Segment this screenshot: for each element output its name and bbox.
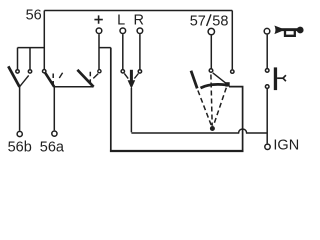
- push button stem: [277, 77, 283, 79]
- push button knob fork: [283, 75, 286, 81]
- svg-text:57: 57: [190, 13, 206, 29]
- switch S3 alternate throw tick: [93, 74, 98, 79]
- wire top bus drop to dimmer right contact: [231, 11, 233, 70]
- wire top bus from 56 corner to right corner: [44, 10, 232, 12]
- svg-text:56a: 56a: [40, 139, 65, 155]
- push button bottom contact: [265, 85, 269, 89]
- horn symbol bell: [274, 26, 281, 35]
- terminal 56a circle: [52, 131, 57, 136]
- dimmer junction blob: [225, 82, 229, 86]
- wire R down: [139, 34, 141, 69]
- svg-text:R: R: [134, 13, 144, 29]
- contact circle of switch S3: [98, 70, 101, 73]
- horn symbol mouthpiece ball: [297, 27, 304, 34]
- dimmer dashed travel left: [198, 91, 212, 127]
- contact circle right of switch S1: [28, 70, 31, 73]
- switch S1 blade (thrown up-left): [8, 66, 19, 87]
- contact circle left of switch S1: [16, 70, 19, 73]
- contact circle of switch S2: [43, 70, 46, 73]
- contact spring R: [134, 74, 138, 79]
- svg-text:L: L: [117, 13, 125, 29]
- terminal IGN circle: [265, 144, 270, 149]
- terminal 56b circle: [17, 131, 22, 136]
- switch S3 blade (thrown up-left): [77, 70, 93, 87]
- svg-text:58: 58: [212, 13, 228, 29]
- push button actuator bar: [274, 67, 277, 90]
- push button top contact: [265, 69, 269, 73]
- horn symbol tube: [281, 28, 299, 31]
- terminal horn circle: [264, 28, 270, 34]
- switch S3 neutral position dashed: [89, 72, 91, 84]
- wire 56 vertical drop: [43, 11, 45, 70]
- wire bottom bus: [110, 150, 244, 152]
- wire from + down and over: [99, 34, 111, 69]
- contact circle 57/58: [209, 69, 213, 73]
- wire horn down to push button: [266, 35, 268, 69]
- wire S2 common down to 56a: [53, 87, 55, 131]
- wire S1 common down to 56b: [19, 87, 21, 131]
- wire 57/58 down: [210, 35, 212, 68]
- dimmer blade thrown up-left: [191, 71, 197, 89]
- svg-text:56b: 56b: [8, 139, 32, 155]
- turn signal switch blade bar: [130, 70, 133, 81]
- wire 56 rail to dimmer switch contacts: [18, 48, 45, 70]
- terminal + circle: [96, 28, 102, 34]
- dimmer pivot dot: [210, 126, 215, 131]
- contact circle R: [138, 70, 141, 73]
- wire push button to IGN: [266, 89, 268, 144]
- label 57/58 slash: [207, 14, 211, 26]
- wire + feed outer loop down right and up to dimmer blade: [111, 48, 243, 151]
- svg-text:IGN: IGN: [273, 137, 299, 153]
- contact spring L: [124, 73, 128, 78]
- contact circle L: [121, 70, 124, 73]
- terminal 57/58 circle: [208, 28, 214, 34]
- switch S1 thin arm to right contact: [20, 75, 29, 86]
- terminal L circle: [120, 28, 126, 34]
- turn signal switch blade arrow: [128, 80, 136, 88]
- dimmer dashed travel right: [213, 88, 226, 126]
- wire IGN bus with hop over + loop: [131, 129, 267, 133]
- horn symbol loop: [285, 31, 295, 36]
- svg-text:56: 56: [26, 8, 42, 24]
- dimmer thin link 57/58 contact to junction: [213, 73, 228, 85]
- switch S2 blade closed on contact: [45, 73, 54, 87]
- contact circle 56 side of dimmer: [231, 70, 234, 73]
- wire turn blade to IGN bus: [130, 88, 132, 132]
- switch S2 neutral position dashed: [52, 74, 54, 85]
- dimmer wiper arc: [201, 84, 227, 88]
- switch S2 alternate throw tick: [59, 73, 62, 78]
- terminal R circle: [137, 28, 143, 34]
- wire linking S2 and S3 commons: [54, 86, 93, 88]
- label +: [94, 15, 102, 23]
- dimmer dashed travel middle: [211, 75, 212, 126]
- wire L down: [122, 34, 124, 69]
